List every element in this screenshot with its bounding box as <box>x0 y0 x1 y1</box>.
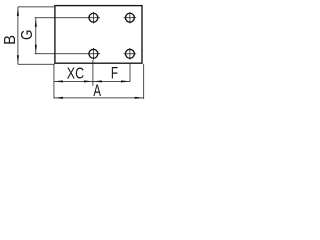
hole bottom-right circle <box>125 49 134 58</box>
svg-text:G: G <box>19 30 36 40</box>
svg-text:XC: XC <box>67 64 84 82</box>
extension line hole column right for F <box>129 64 131 82</box>
arrowhead F right <box>121 80 130 82</box>
extension line top hole row for G (through top-left center mark) <box>35 17 100 19</box>
arrowhead B bottom <box>17 55 19 64</box>
plate outline <box>55 6 142 64</box>
arrowhead G bottom <box>35 45 37 54</box>
arrowhead G top <box>35 18 37 27</box>
svg-text:A: A <box>93 81 101 100</box>
arrowhead XC right <box>84 80 93 82</box>
hole top-right circle <box>125 13 134 22</box>
arrowhead B top <box>17 7 19 16</box>
hole bottom-left circle <box>89 49 98 58</box>
arrowhead XC left <box>54 80 63 82</box>
hole top-left circle <box>89 13 98 22</box>
extension line left plate edge for XC and A <box>53 64 55 99</box>
extension line right plate edge for A <box>143 64 145 99</box>
dimension line A <box>54 97 144 99</box>
hole bottom-left center mark vertical <box>92 48 94 60</box>
dimension line G <box>35 18 37 54</box>
extension line plate top for B <box>18 6 54 8</box>
extension line bottom hole row for G (through bottom-left center mark) <box>35 53 101 55</box>
arrowhead A left <box>54 97 63 99</box>
extension line hole column left for XC and F <box>92 60 94 86</box>
hole bottom-right center mark vertical <box>129 48 131 60</box>
arrowhead A right <box>135 97 144 99</box>
hole bottom-right center mark horizontal <box>124 53 137 55</box>
svg-text:B: B <box>1 35 19 45</box>
hole top-right center mark horizontal <box>124 17 137 19</box>
dimension line B <box>17 7 19 64</box>
svg-text:F: F <box>111 65 118 83</box>
dimension line XC and F <box>54 80 130 82</box>
arrowhead F left <box>93 80 102 82</box>
hole top-right center mark vertical <box>129 12 131 24</box>
hole top-left center mark vertical <box>92 12 94 24</box>
extension line plate bottom for B <box>18 63 55 65</box>
